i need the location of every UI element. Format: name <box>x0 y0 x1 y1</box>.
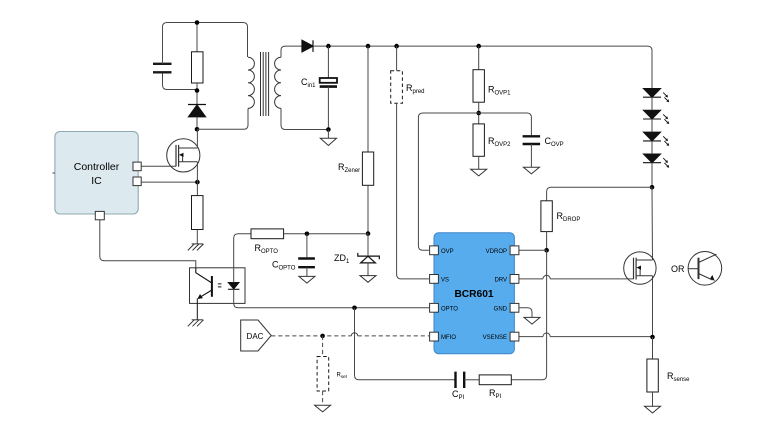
node junction drain <box>195 127 200 132</box>
svg-text:ROPTO: ROPTO <box>255 243 279 255</box>
node junction snubber bottom <box>195 88 200 93</box>
svg-text:Rset: Rset <box>337 373 348 380</box>
wire Rsense ground stem <box>652 392 654 406</box>
pin controller gate <box>133 162 141 171</box>
IC U1 Controller body <box>55 132 138 215</box>
wire MFIO dashed <box>271 335 430 337</box>
IC U2 BCR601 body <box>434 233 514 354</box>
resistor Rset (dashed) <box>317 357 329 392</box>
pin VS <box>430 275 439 284</box>
node junction VDROP <box>544 248 549 253</box>
wire ZD1 ground stem <box>367 263 369 276</box>
wire snubber R bottom lead <box>196 83 198 105</box>
wire secondary bottom <box>281 108 328 129</box>
resistor RZener <box>362 152 373 185</box>
wire top-left rail primary <box>163 23 248 58</box>
node junction Cin1 top <box>326 44 331 49</box>
node junction Q1 source <box>195 180 200 185</box>
wire controller gate to Q1 <box>141 165 176 167</box>
ground COPTO <box>299 276 315 283</box>
wire Q1 drain <box>196 129 198 148</box>
svg-text:ROVP2: ROVP2 <box>488 136 511 148</box>
ground Rsense <box>645 406 661 413</box>
optocoupler light marks <box>218 284 222 287</box>
capacitor CPI <box>456 372 465 388</box>
svg-text:MFIO: MFIO <box>441 335 456 341</box>
pin MFIO <box>430 332 439 341</box>
wire Q1 source down <box>196 162 198 196</box>
pin DRV <box>510 275 519 284</box>
node junction LED bottom <box>650 185 655 190</box>
svg-text:OPTO: OPTO <box>441 306 458 312</box>
pin controller source <box>133 177 141 186</box>
wire snubber cap left branch bottom <box>163 73 198 90</box>
node junction ROVP1 top <box>476 44 481 49</box>
wire RDROP bottom lead <box>546 232 548 251</box>
wire snubber cap upper lead <box>162 27 164 64</box>
wire secondary top to output diode <box>281 46 302 57</box>
svg-text:OVP: OVP <box>441 249 454 255</box>
svg-text:OR: OR <box>671 264 685 274</box>
pin controller bottom <box>95 211 104 219</box>
svg-text:RZener: RZener <box>338 162 360 174</box>
wire OVP divider to COVP <box>479 113 532 135</box>
optocoupler phototransistor <box>196 268 212 320</box>
LED D4 <box>643 154 661 163</box>
pin VDROP <box>510 246 519 255</box>
wire Q2 source to sense node <box>652 276 654 337</box>
svg-text:RDROP: RDROP <box>557 211 581 223</box>
svg-text:ROVP1: ROVP1 <box>488 84 511 96</box>
svg-text:VS: VS <box>441 277 449 283</box>
wire primary winding bottom <box>197 109 248 130</box>
node junction OPTO-CPI <box>352 306 357 311</box>
svg-text:IC: IC <box>91 175 102 187</box>
svg-text:COVP: COVP <box>545 136 564 148</box>
wire opto LED cathode to OPTO pin <box>234 289 430 308</box>
svg-text:DRV: DRV <box>494 277 507 283</box>
svg-text:VSENSE: VSENSE <box>483 335 507 341</box>
wire secondary rail <box>313 46 652 88</box>
pin VSENSE <box>510 332 519 341</box>
node junction rail-snubber <box>195 20 200 25</box>
optocoupler U3 box <box>190 268 246 304</box>
wire LED junction to Q2 drain <box>651 187 654 260</box>
DAC block <box>241 320 272 351</box>
node junction Cin1 bottom <box>326 127 331 132</box>
svg-text:Rpred: Rpred <box>406 83 425 95</box>
transformer T1 core <box>261 52 269 116</box>
resistor RDROP <box>541 201 552 232</box>
wire LED string segments <box>651 97 653 187</box>
node junction RZener-ZD1 <box>366 231 371 236</box>
wire CPI to RPI <box>464 379 479 381</box>
capacitor COVP <box>523 136 541 144</box>
wire ROPTO left to opto LED anode <box>234 234 251 283</box>
wire snubber diode to drain node <box>196 117 198 130</box>
wire COVP ground stem <box>530 144 532 167</box>
LED D2 <box>643 110 661 119</box>
wire OPTO junction down to CPI <box>355 308 456 380</box>
wire LED bottom to RDROP <box>547 187 652 201</box>
transistor Q1 MOSFET <box>167 139 200 172</box>
pin GND <box>510 303 519 312</box>
svg-text:GND: GND <box>494 306 508 312</box>
resistor snubber R <box>192 52 204 83</box>
wire Cin1 top lead <box>327 46 329 78</box>
wire OVP divider to OVP pin <box>418 113 478 250</box>
svg-text:CPI: CPI <box>452 389 465 401</box>
capacitor COPTO <box>298 259 315 268</box>
wire Rsense top lead <box>652 337 654 359</box>
svg-text:Cin1: Cin1 <box>301 77 316 89</box>
ground Cin1 <box>320 138 336 145</box>
transformer T1 secondary winding <box>275 57 281 108</box>
wire ROVP1 bottom lead <box>478 102 480 124</box>
wire ZD1 top lead <box>367 234 369 256</box>
svg-text:DAC: DAC <box>247 332 264 341</box>
capacitor snubber C (primary clamp) <box>153 64 172 73</box>
wire ROVP2 ground stem <box>478 156 480 169</box>
ground GND pin <box>524 317 540 324</box>
diode output rectifier <box>302 40 313 52</box>
svg-text:Controller: Controller <box>74 161 120 173</box>
ground Rset <box>315 405 331 412</box>
wire ZD1 node to COPTO node <box>284 233 368 235</box>
svg-text:BCR601: BCR601 <box>454 289 493 300</box>
svg-text:RPI: RPI <box>489 388 502 400</box>
wire VDROP pin to junction <box>519 249 547 251</box>
node junction Rpred top <box>394 44 399 49</box>
wire RZener top lead <box>367 46 369 152</box>
svg-text:ZD1: ZD1 <box>334 253 350 265</box>
node junction sense <box>650 335 655 340</box>
resistor Rsense <box>647 359 658 392</box>
node junction RZener top <box>366 44 371 49</box>
pin controller left nub <box>53 172 56 174</box>
wire source R ground stem <box>196 230 198 244</box>
wire Rpred to VS pin <box>397 103 429 279</box>
resistor Rpred (dashed) <box>391 71 403 104</box>
resistor ROVP1 <box>473 70 484 103</box>
wire COPTO top stem <box>306 234 308 257</box>
wire hop VSENSE crossing <box>543 333 550 337</box>
wire DRV pin to gate <box>519 278 634 280</box>
wire controller bottom pin to opto collector <box>100 220 196 268</box>
wire Rset top dashed <box>322 336 324 357</box>
transistor Q2 MOSFET <box>624 252 656 284</box>
resistor RPI <box>479 375 511 385</box>
diode snubber clamp <box>188 105 206 117</box>
wire hop MFIO crossing <box>351 333 357 336</box>
node junction COPTO <box>305 232 310 237</box>
svg-text:COPTO: COPTO <box>272 260 296 272</box>
wire Rset ground dashed <box>322 391 324 405</box>
wire VSENSE pin to sense node <box>519 336 653 338</box>
wire Rpred top lead <box>396 46 398 71</box>
wire COPTO ground stem <box>306 267 308 276</box>
resistor ROVP2 <box>473 124 484 156</box>
transistor Q3 NPN alternative <box>688 251 722 285</box>
wire ROVP1 top lead <box>478 46 480 70</box>
node junction Rset <box>320 334 325 339</box>
pin OVP <box>430 246 439 255</box>
optocoupler LED <box>228 283 239 290</box>
wire snubber R top lead <box>196 23 198 52</box>
ground ZD1 <box>360 276 376 283</box>
wire RDROP junction down with hops <box>511 250 546 379</box>
svg-text:VDROP: VDROP <box>486 249 507 255</box>
capacitor Cin1 polarized <box>320 78 337 87</box>
pin OPTO <box>430 303 439 312</box>
resistor controller source R <box>192 196 204 230</box>
wire Cin1 bottom lead <box>327 87 329 130</box>
LED D3 <box>643 132 661 141</box>
ground COVP <box>523 167 539 174</box>
diode zener ZD1 <box>358 253 380 263</box>
ground hatched source R <box>188 244 204 251</box>
wire controller source sense <box>141 181 197 183</box>
svg-text:Rsense: Rsense <box>667 371 690 383</box>
ground hatched opto emitter <box>188 320 204 327</box>
wire Cin1 ground stem <box>327 130 329 139</box>
resistor ROPTO <box>251 229 284 239</box>
node junction OVP divider <box>476 111 481 116</box>
LED D1 <box>643 89 661 98</box>
wire hop DRV crossing <box>543 275 550 279</box>
wire GND pin to ground <box>519 308 532 318</box>
transformer T1 primary winding <box>248 57 254 108</box>
wire RZener bottom lead <box>367 185 369 233</box>
ground ROVP2 <box>471 169 487 176</box>
